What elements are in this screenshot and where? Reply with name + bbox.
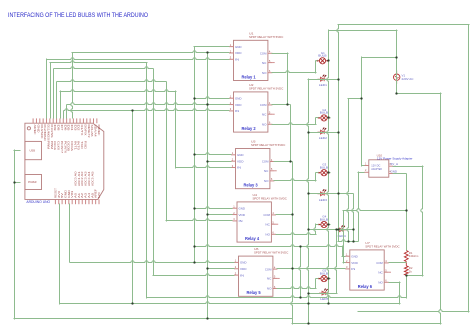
svg-text:5V: 5V [61,192,64,198]
svg-text:VDD: VDD [237,159,244,163]
svg-text:SPDT RELAY WITH 5VDC: SPDT RELAY WITH 5VDC [253,196,288,200]
svg-text:SDA/A4: SDA/A4 [93,125,96,138]
svg-text:IN: IN [240,273,244,277]
svg-text:IN: IN [239,219,243,223]
svg-text:USB: USB [30,149,36,153]
svg-text:POWER: POWER [28,181,37,184]
svg-text:INT0: INT0 [77,141,79,151]
svg-text:GND: GND [235,45,242,49]
svg-text:BULB: BULB [320,166,328,170]
svg-text:LED1: LED1 [319,83,328,87]
svg-text:SPDT RELAY WITH 5VDC: SPDT RELAY WITH 5VDC [254,251,289,255]
svg-text:NO: NO [262,71,267,75]
svg-text:SCL/A5: SCL/A5 [90,125,93,138]
svg-text:RESET: RESET [54,187,57,198]
svg-text:GND: GND [237,153,244,157]
svg-text:VDD: VDD [235,51,242,55]
svg-text:RXD: RXD [83,141,85,150]
svg-text:OC0B: OC0B [67,141,69,152]
svg-text:PWM: PWM [47,141,49,149]
svg-text:COM: COM [262,160,269,164]
svg-text:12V Power Supply Adapter: 12V Power Supply Adapter [377,156,413,160]
svg-text:220V AC: 220V AC [402,77,414,81]
svg-text:NO: NO [378,281,383,285]
svg-text:R2: R2 [409,266,413,270]
svg-text:LED3: LED3 [319,198,328,202]
svg-text:SPDT RELAY WITH 5VDC: SPDT RELAY WITH 5VDC [249,86,284,90]
svg-text:SPDT RELAY WITH 5VDC: SPDT RELAY WITH 5VDC [251,143,286,147]
svg-text:COM: COM [265,267,272,271]
svg-text:IOREF: IOREF [97,125,100,137]
svg-text:Relay 2: Relay 2 [242,126,257,131]
svg-text:VDD: VDD [240,267,247,271]
svg-text:CLK0: CLK0 [57,141,59,151]
svg-text:COM: COM [260,103,267,107]
svg-text:D12/MISO: D12/MISO [43,125,46,141]
svg-text:D1/TX: D1/TX [80,125,83,137]
svg-text:D0/RX: D0/RX [83,125,86,137]
svg-text:PCINT7: PCINT7 [60,141,62,154]
svg-text:NO: NO [262,123,267,127]
svg-text:12V DC: 12V DC [371,165,380,168]
svg-text:GND: GND [240,261,247,265]
svg-text:5V_A: 5V_A [391,162,399,166]
svg-text:NO: NO [265,233,270,237]
svg-text:INTERFACING OF THE LED BULBS W: INTERFACING OF THE LED BULBS WITH THE AR… [8,12,148,19]
svg-text:D13/SCK: D13/SCK [40,125,43,140]
svg-text:Relay 4: Relay 4 [245,236,260,241]
svg-text:BULB: BULB [320,111,328,115]
svg-text:Relay 1: Relay 1 [242,74,257,79]
svg-text:BULB: BULB [320,217,328,221]
svg-text:D10/SS: D10/SS [50,125,53,139]
svg-text:D11/MOSI: D11/MOSI [47,125,50,141]
svg-text:ARDUINO UNO: ARDUINO UNO [26,200,50,204]
svg-text:PCINT6: PCINT6 [63,141,65,154]
svg-text:GND: GND [64,190,67,198]
svg-text:GND: GND [391,170,398,174]
svg-text:SPDT RELAY WITH 5VDC: SPDT RELAY WITH 5VDC [249,35,284,39]
svg-text:INT1: INT1 [73,141,75,151]
svg-text:BULB: BULB [320,271,328,275]
svg-text:LED2: LED2 [319,136,328,140]
svg-text:NO: NO [264,179,269,183]
svg-text:RESET2: RESET2 [87,125,90,139]
svg-text:IN: IN [235,58,239,62]
svg-text:VIN: VIN [71,191,74,198]
svg-text:VDD: VDD [239,213,246,217]
svg-text:VDD: VDD [351,261,358,265]
svg-text:AREF: AREF [33,125,36,136]
svg-text:GND: GND [351,254,358,258]
svg-text:COM: COM [376,261,383,265]
svg-text:IN: IN [237,166,241,170]
svg-text:BULB: BULB [318,54,326,58]
svg-text:AREF: AREF [95,188,98,198]
svg-text:R1: R1 [409,251,413,255]
svg-text:3V3: 3V3 [58,190,61,198]
svg-text:GND: GND [36,125,39,133]
svg-text:TXD: TXD [80,141,82,150]
svg-text:SPDT RELAY WITH 5VDC: SPDT RELAY WITH 5VDC [365,244,400,248]
svg-text:IN: IN [235,109,239,113]
svg-text:GND: GND [235,96,242,100]
svg-text:N/C: N/C [98,192,101,198]
svg-text:Relay 3: Relay 3 [244,183,259,188]
svg-text:PWM: PWM [50,141,52,149]
svg-text:440ohm: 440ohm [409,254,419,258]
svg-text:IN: IN [351,267,355,271]
svg-text:Relay 6: Relay 6 [358,284,373,289]
svg-text:COM: COM [260,52,267,56]
svg-text:GND: GND [239,206,246,210]
svg-text:Relay 5: Relay 5 [247,290,262,295]
svg-text:ADAPTER: ADAPTER [371,168,382,171]
svg-text:VDD: VDD [235,103,242,107]
svg-text:GND: GND [68,190,71,198]
svg-text:COM: COM [263,213,270,217]
svg-text:NO: NO [267,287,272,291]
